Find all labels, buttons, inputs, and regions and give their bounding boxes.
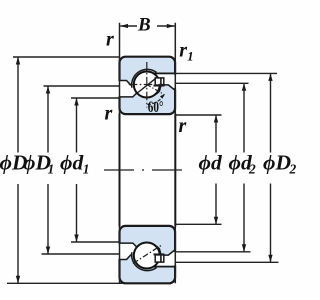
top ball horizontal centerline — [129, 84, 165, 86]
phiD dimension line — [17, 57, 19, 283]
phid extension line top — [175, 114, 221, 116]
svg-text:ϕd: ϕd — [60, 151, 84, 175]
top ball — [134, 72, 160, 98]
phiD2 extension line top — [175, 72, 277, 74]
phiD1 extension line top — [44, 85, 121, 87]
phid dimension line — [215, 115, 217, 224]
phiD extension line top — [13, 56, 120, 58]
top ball raceway chord — [137, 78, 156, 93]
ring gap white cutout bottom-right — [152, 250, 177, 265]
bottom outer ring race edge left — [120, 255, 132, 260]
phiD2 dimension line — [270, 73, 272, 262]
left side face line — [119, 23, 121, 284]
phid1 extension line top — [71, 97, 120, 99]
bottom outer ring top-right face — [153, 266, 176, 268]
ring gap white cutout bottom-left — [118, 244, 136, 259]
bottom cage top land — [154, 253, 165, 255]
bottom cage pocket — [155, 255, 164, 262]
bore surface line left (thick mid) — [119, 114, 121, 227]
bottom inner ring bottom-left face — [120, 243, 140, 249]
top outer ring race arc — [132, 69, 157, 87]
phid2 extension line top — [175, 82, 248, 84]
bottom contact angle dash-dot line — [133, 245, 163, 264]
ring gap white cutout top-right — [152, 75, 177, 90]
top outer ring race edge left — [120, 81, 132, 86]
bottom cage rivet mark — [160, 255, 162, 262]
top inner ring shoulder right — [161, 85, 176, 91]
phiD1 extension line bottom — [42, 253, 121, 255]
phiD extension line bottom — [7, 282, 123, 284]
svg-text:r: r — [179, 115, 187, 137]
phid1 dimension line — [76, 98, 78, 242]
contact angle arc dashed — [148, 95, 164, 104]
B dimension line with arrows — [120, 24, 174, 28]
top cage bottom land — [154, 85, 165, 87]
top outer ring bottom-right face — [153, 72, 176, 74]
svg-text:r: r — [106, 29, 114, 51]
main axis centerline — [104, 169, 183, 171]
right side face line — [174, 23, 176, 284]
svg-text:1: 1 — [48, 162, 55, 177]
phid1 extension line bottom — [71, 241, 120, 243]
svg-text:ϕd: ϕd — [199, 151, 223, 175]
top inner ring top-left face — [120, 91, 140, 97]
top cage rivet mark — [160, 78, 162, 85]
contact angle arc arrowhead — [160, 94, 165, 99]
svg-text:r: r — [105, 102, 113, 124]
svg-text:2: 2 — [289, 162, 297, 177]
bottom inner ring shoulder right — [161, 249, 176, 255]
bottom outer ring race arc — [132, 252, 157, 270]
top inner ring race arc — [138, 85, 161, 96]
svg-text:B: B — [137, 15, 151, 36]
svg-text:60°: 60° — [148, 98, 164, 115]
bottom inner ring race arc — [138, 244, 161, 255]
phid extension line bottom — [175, 223, 221, 225]
bore surface line right (thick mid) — [174, 114, 176, 227]
outer ring section top (blue body) — [120, 57, 176, 114]
phid2 dimension line — [243, 83, 245, 252]
top ball vertical centerline — [146, 62, 148, 108]
phiD2 extension line bottom — [175, 261, 278, 263]
top cage pocket — [155, 78, 164, 85]
svg-text:1: 1 — [83, 162, 90, 177]
phiD1 dimension line — [47, 86, 49, 254]
outer ring section bottom (blue body) — [120, 226, 176, 283]
top contact angle dash-dot line — [147, 85, 165, 95]
svg-text:2: 2 — [248, 162, 256, 177]
bottom ball — [134, 243, 160, 269]
ring gap white cutout top-left — [118, 81, 136, 96]
svg-text:ϕD: ϕD — [263, 151, 291, 175]
phid2 extension line bottom — [175, 251, 250, 253]
